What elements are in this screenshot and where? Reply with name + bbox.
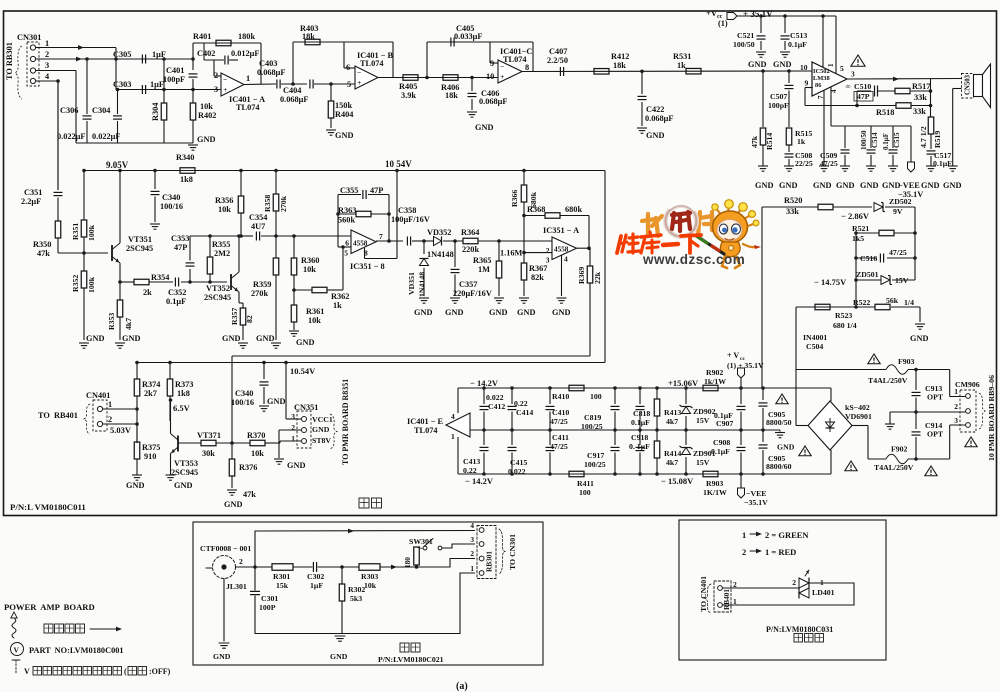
svg-text:5: 5 — [840, 64, 844, 73]
svg-text:C354: C354 — [249, 213, 267, 222]
svg-text:47/25: 47/25 — [550, 417, 568, 426]
svg-text:0.1μF: 0.1μF — [631, 418, 650, 427]
svg-text:R413: R413 — [664, 408, 681, 417]
capacitor C513 — [784, 16, 786, 33]
legend signal path — [44, 624, 53, 633]
svg-text:C918: C918 — [631, 433, 648, 442]
svg-text:2: 2 — [792, 578, 796, 587]
svg-text:9: 9 — [805, 79, 809, 88]
ground C513 — [780, 51, 790, 53]
svg-text:33k: 33k — [786, 207, 799, 216]
op-amp IC401-C — [498, 60, 522, 83]
wire LED loop — [809, 582, 854, 584]
svg-text:10k: 10k — [308, 316, 321, 325]
wire VD352 seg — [420, 240, 433, 242]
wire R303 out — [380, 566, 450, 568]
svg-text:R367: R367 — [529, 264, 547, 273]
svg-text:1: 1 — [451, 432, 455, 441]
svg-text:2: 2 — [45, 50, 49, 59]
wire rail -15 — [458, 473, 831, 475]
svg-text:2: 2 — [470, 549, 474, 558]
wire VD352-R364 — [443, 240, 463, 242]
svg-text:6: 6 — [346, 63, 350, 72]
resistor R302 — [341, 567, 343, 584]
svg-text:0.068μF: 0.068μF — [280, 95, 308, 104]
svg-text:TO CN401: TO CN401 — [699, 576, 708, 612]
svg-text:F902: F902 — [891, 445, 908, 454]
wire C510 net — [857, 90, 871, 92]
svg-text:0.1μF: 0.1μF — [933, 159, 952, 168]
wire VT351 emitter — [119, 263, 121, 300]
wire 9.05V rail — [84, 170, 605, 172]
svg-text:1k: 1k — [677, 61, 686, 70]
svg-text:GND: GND — [222, 334, 240, 343]
svg-text:IC401 − E: IC401 − E — [407, 417, 444, 426]
svg-text:C513: C513 — [790, 31, 807, 40]
wire pin2 stub — [214, 75, 221, 77]
svg-text:kS−402: kS−402 — [845, 403, 870, 412]
svg-text:1.16M: 1.16M — [500, 249, 523, 258]
svg-text:0.012μF: 0.012μF — [231, 49, 259, 58]
resistor R402 — [192, 90, 194, 104]
wire CN401 pin2 — [103, 423, 137, 425]
svg-text:(a): (a) — [456, 681, 468, 692]
svg-text:5: 5 — [344, 249, 348, 258]
svg-text:+: + — [500, 73, 504, 81]
wire output A — [244, 83, 276, 86]
capacitor C405 — [450, 38, 452, 47]
svg-text:0.022: 0.022 — [486, 393, 504, 402]
svg-text:R352: R352 — [71, 275, 80, 292]
svg-text:15k: 15k — [276, 581, 289, 590]
svg-text:GND: GND — [552, 308, 570, 317]
ground VD351 — [419, 297, 429, 299]
wire VT351 collector — [119, 171, 121, 244]
resistor R519 — [928, 117, 934, 134]
svg-text:R521: R521 — [852, 224, 869, 233]
ground JL301 — [219, 642, 229, 644]
wire rail +15 — [458, 387, 831, 389]
capacitor C357 — [454, 241, 456, 267]
svg-text:C521: C521 — [737, 31, 754, 40]
svg-text:VCC1: VCC1 — [312, 415, 333, 424]
ground C515 — [888, 165, 898, 167]
svg-text:4: 4 — [451, 412, 455, 421]
zener ZD502 — [874, 203, 883, 212]
wire mid cm906 — [890, 411, 966, 413]
wire LED top — [722, 587, 799, 589]
brace CN401 — [84, 404, 90, 434]
wire R370 to ST8V — [265, 442, 280, 444]
svg-text:R405: R405 — [399, 82, 417, 91]
svg-text:GND: GND — [836, 181, 854, 190]
resistor R375 — [136, 424, 138, 442]
svg-text:8: 8 — [525, 63, 529, 72]
svg-text:0.033μF: 0.033μF — [454, 32, 482, 41]
capacitor C410 — [549, 388, 551, 404]
capacitor C510 — [874, 86, 876, 97]
op-amp IC351-8 — [351, 230, 376, 254]
svg-text:(: ( — [124, 667, 127, 676]
transistor VT351 — [111, 245, 113, 261]
svg-text:C515: C515 — [893, 132, 901, 148]
svg-text:82: 82 — [245, 315, 254, 323]
svg-text:4558: 4558 — [353, 240, 368, 248]
capacitor C351 — [57, 81, 59, 190]
svg-text:GND: GND — [287, 461, 305, 470]
svg-text:47/25: 47/25 — [820, 159, 838, 168]
capacitor C514 — [867, 149, 876, 151]
svg-text:2.2/50: 2.2/50 — [547, 56, 568, 65]
legend dashed V — [12, 659, 20, 661]
svg-text:R364: R364 — [461, 228, 479, 237]
capacitor C401 — [192, 59, 194, 70]
svg-text:(1): (1) — [718, 19, 728, 28]
svg-text:4k7: 4k7 — [666, 417, 678, 426]
svg-text:2.2μF: 2.2μF — [21, 197, 41, 206]
border frame — [4, 11, 997, 516]
capacitor C913 — [915, 370, 917, 391]
svg-text:1: 1 — [45, 39, 49, 48]
svg-text:5: 5 — [347, 80, 351, 89]
op-amp IC401-A — [221, 73, 244, 96]
svg-text:IC351 − A: IC351 − A — [543, 226, 579, 235]
svg-text:CN351: CN351 — [294, 403, 318, 412]
jack JL301 — [213, 556, 236, 579]
wire vcc rail — [737, 15, 836, 17]
svg-text:ZD502: ZD502 — [889, 197, 912, 206]
wire sw feed — [254, 531, 256, 567]
resistor R531 — [686, 68, 701, 74]
ground R302 — [335, 635, 345, 637]
svg-text:R401: R401 — [193, 32, 211, 41]
svg-text:C412: C412 — [488, 402, 505, 411]
svg-text:15V: 15V — [696, 416, 710, 425]
svg-text:22k: 22k — [593, 271, 602, 284]
svg-text:9.05V: 9.05V — [106, 160, 129, 170]
label shuru — [400, 643, 409, 652]
wire SW301 pin3 — [442, 547, 452, 549]
wire pin1 drop — [115, 48, 117, 90]
brace CN351 — [330, 414, 337, 449]
svg-text:1: 1 — [291, 434, 295, 443]
capacitor C340a — [154, 171, 156, 190]
svg-text:C403: C403 — [259, 59, 277, 68]
wire feedback R401 net — [193, 42, 261, 44]
ground C521 — [756, 51, 766, 53]
resistor R520 — [818, 204, 833, 210]
label zhishideng — [794, 634, 803, 643]
svg-text:5.03V: 5.03V — [110, 425, 132, 435]
svg-text:100μF/16V: 100μF/16V — [391, 215, 430, 224]
wire feedback C405 net — [427, 41, 533, 43]
svg-text:15V: 15V — [696, 458, 710, 467]
resistor R413 — [656, 388, 658, 399]
svg-text:1/4: 1/4 — [904, 298, 914, 307]
node -VEE mid — [738, 488, 745, 498]
svg-text:VT351: VT351 — [128, 235, 152, 244]
wire VT353 collector — [170, 400, 172, 434]
svg-text:R517: R517 — [912, 82, 930, 91]
capacitor C302 — [312, 563, 314, 572]
wire R520 to ZD502 — [833, 206, 872, 208]
svg-text:1μF: 1μF — [310, 581, 323, 590]
svg-text:1 = RED: 1 = RED — [765, 547, 796, 557]
svg-text:PART NO:LVM0180C001: PART NO:LVM0180C001 — [29, 646, 124, 655]
svg-text:SW301: SW301 — [409, 537, 433, 546]
resistor R366 — [523, 171, 525, 186]
warning triangle bridge — [845, 461, 857, 471]
svg-text:56k: 56k — [886, 296, 899, 305]
svg-text:R376: R376 — [239, 463, 257, 472]
svg-text:GND: GND — [312, 425, 330, 434]
capacitor C914 — [915, 412, 917, 429]
resistor R369 — [589, 248, 591, 266]
connector CM906 — [960, 390, 976, 432]
svg-text:100k: 100k — [87, 276, 96, 293]
resistor R521 — [856, 232, 879, 234]
svg-text:47/25: 47/25 — [889, 248, 907, 257]
diode VD351 — [423, 241, 425, 254]
svg-text:C414: C414 — [516, 408, 533, 417]
svg-text:P/N:L VM0180C011: P/N:L VM0180C011 — [10, 502, 86, 512]
wire speaker return — [953, 88, 962, 90]
svg-text:C907: C907 — [716, 419, 733, 428]
svg-text:TL074: TL074 — [414, 426, 438, 435]
resistor R514 — [762, 71, 764, 127]
svg-text:18k: 18k — [445, 91, 458, 100]
resistor R303 — [359, 564, 380, 571]
svg-text:R354: R354 — [151, 273, 169, 282]
wire R364-pin2 — [478, 240, 552, 242]
svg-text:−VEE: −VEE — [898, 181, 920, 190]
svg-text:GND: GND — [126, 481, 144, 490]
svg-text:F903: F903 — [898, 357, 915, 366]
svg-text:VD352: VD352 — [427, 228, 451, 237]
wire pin1 — [36, 47, 116, 49]
svg-text:680k: 680k — [565, 205, 582, 214]
capacitor C413 — [483, 430, 485, 445]
led LD401 — [799, 578, 809, 588]
svg-text:10: 10 — [486, 72, 494, 81]
svg-text:TO RB401: TO RB401 — [38, 411, 78, 420]
svg-text:VD6901: VD6901 — [845, 412, 872, 421]
svg-text:10.54V: 10.54V — [290, 366, 316, 376]
svg-text:(1) + 35.1V: (1) + 35.1V — [727, 361, 764, 370]
svg-text:R351: R351 — [71, 223, 80, 240]
svg-text:100pF: 100pF — [163, 75, 185, 84]
svg-text:R353: R353 — [107, 313, 116, 330]
svg-text:C306: C306 — [60, 106, 78, 115]
svg-text:VT371: VT371 — [197, 431, 221, 440]
node -VEE — [910, 126, 912, 162]
svg-text:C422: C422 — [646, 105, 664, 114]
svg-text:R531: R531 — [673, 52, 691, 61]
wire feedback R403 net — [293, 41, 344, 43]
wire pin3 line IC351A — [524, 252, 552, 254]
wire R301-C302 — [293, 566, 312, 568]
svg-text:2k7: 2k7 — [144, 389, 157, 398]
ground C508 — [784, 165, 794, 167]
svg-text:10k: 10k — [303, 265, 316, 274]
resistor R358 — [275, 171, 277, 195]
svg-text:CN401: CN401 — [86, 391, 110, 400]
svg-text:IC502: IC502 — [813, 68, 830, 75]
connector RB401 — [714, 581, 731, 612]
capacitor C507 — [788, 71, 790, 83]
svg-text:C351: C351 — [24, 188, 42, 197]
wire JL301 gnd — [223, 579, 225, 642]
capacitor C517 — [927, 150, 936, 152]
svg-text:C353: C353 — [171, 234, 189, 243]
svg-text:2M2: 2M2 — [214, 249, 230, 258]
resistor 180 — [414, 547, 420, 565]
svg-text:IC351 − 8: IC351 − 8 — [350, 262, 385, 271]
wire pin4 net — [830, 87, 832, 126]
svg-text:−35.1V: −35.1V — [744, 498, 768, 507]
ground R376 — [227, 489, 237, 491]
wire F902 line — [852, 425, 868, 427]
brace CM906 — [979, 393, 985, 429]
svg-text:GND: GND — [517, 308, 535, 317]
svg-text:GND: GND — [267, 397, 285, 406]
svg-text:POWER AMP BOARD: POWER AMP BOARD — [4, 602, 95, 612]
resistor R361 — [293, 290, 295, 305]
svg-text:P/N:LVM0180C031: P/N:LVM0180C031 — [766, 625, 833, 634]
svg-text:+: + — [357, 79, 361, 87]
resistor VT371 — [201, 440, 216, 446]
svg-text:C516: C516 — [860, 254, 877, 263]
op-amp IC351-A — [552, 237, 577, 260]
svg-text:2SC945: 2SC945 — [126, 244, 153, 253]
svg-text:ZD501: ZD501 — [856, 270, 879, 279]
wire C354 line — [239, 235, 253, 237]
wire pin4 — [36, 80, 58, 82]
svg-text:R359: R359 — [253, 280, 271, 289]
svg-text:R340: R340 — [176, 153, 194, 162]
legend spring — [12, 619, 16, 638]
pentagon Vcc mid — [738, 368, 745, 378]
svg-text:15V: 15V — [895, 276, 909, 285]
warning triangle CM906 — [965, 437, 977, 447]
svg-text:R903: R903 — [706, 479, 723, 488]
wire coupling mid — [281, 83, 307, 85]
transistor VT353 — [177, 436, 179, 452]
svg-text:C407: C407 — [549, 47, 567, 56]
capacitor C352 — [174, 278, 176, 287]
wire R520 net — [762, 206, 818, 208]
resistor R354 — [134, 279, 149, 285]
svg-text:C507: C507 — [770, 92, 787, 101]
svg-text:0.068μF: 0.068μF — [479, 97, 507, 106]
svg-text:3.9k: 3.9k — [401, 91, 416, 100]
connector RB301 — [477, 526, 496, 579]
svg-text:R519: R519 — [933, 131, 942, 148]
speaker SP — [974, 75, 983, 97]
resistor R903 — [703, 471, 718, 477]
capacitor C304 — [117, 90, 119, 115]
svg-text:100/50: 100/50 — [733, 40, 755, 49]
svg-text:3: 3 — [546, 256, 550, 265]
svg-text:GND: GND — [213, 652, 231, 661]
svg-text:100P: 100P — [259, 603, 276, 612]
svg-text:−: − — [500, 63, 504, 71]
warning triangle C905a — [776, 394, 788, 404]
svg-text:TO CN301: TO CN301 — [508, 534, 517, 570]
svg-text:TL074: TL074 — [503, 55, 527, 64]
svg-text:C514: C514 — [871, 132, 879, 148]
wire pin9 feedback — [805, 87, 813, 89]
svg-text:86: 86 — [815, 82, 822, 89]
wire R518 line — [805, 105, 896, 107]
resistor R376 — [231, 443, 233, 459]
svg-text:− 14.2V: − 14.2V — [465, 476, 494, 486]
svg-text:V: V — [14, 646, 20, 655]
wire Vcc col — [740, 378, 742, 404]
warning triangle F903 — [868, 354, 880, 364]
svg-text:GND: GND — [256, 334, 274, 343]
svg-text:R410: R410 — [552, 392, 569, 401]
wire VT352 collector — [238, 236, 240, 272]
svg-text:TO RB301: TO RB301 — [5, 42, 14, 80]
resistor R353 — [117, 300, 123, 317]
svg-text:220μF/16V: 220μF/16V — [453, 289, 492, 298]
svg-text:R365: R365 — [473, 256, 491, 265]
svg-text:C917: C917 — [587, 451, 604, 460]
svg-text:ZD902: ZD902 — [693, 407, 716, 416]
wire C354 right — [261, 235, 351, 237]
wire ladder right — [885, 206, 915, 208]
svg-text:R518: R518 — [876, 108, 894, 117]
svg-text:GND: GND — [330, 652, 348, 661]
op-amp IC401-B — [355, 66, 378, 89]
wire C353/R355 top — [190, 235, 239, 237]
wire to pin5 — [314, 83, 355, 85]
wire 6.5V node — [169, 400, 171, 421]
svg-text:R375: R375 — [142, 443, 160, 452]
svg-text:220k: 220k — [462, 245, 479, 254]
svg-text:22/25: 22/25 — [795, 159, 813, 168]
resistor R365 — [498, 241, 500, 261]
svg-text:R304: R304 — [151, 103, 160, 121]
svg-text:9V: 9V — [893, 207, 903, 216]
capacitor C305 — [141, 55, 143, 64]
svg-text:GND: GND — [414, 308, 432, 317]
zener ZD901 — [685, 430, 687, 445]
led board box — [679, 520, 886, 660]
svg-text:−: − — [223, 76, 227, 84]
svg-text:ST8V: ST8V — [312, 436, 331, 445]
wire pin3 line — [116, 89, 221, 91]
svg-text:R411: R411 — [577, 479, 594, 488]
svg-text:C402: C402 — [197, 49, 215, 58]
svg-text:C357: C357 — [459, 280, 477, 289]
ground C357 — [450, 297, 460, 299]
resistor R356 — [240, 171, 242, 197]
svg-text:1M: 1M — [478, 265, 490, 274]
wire output IC502 — [847, 78, 962, 81]
warning triangle C905b — [799, 446, 811, 456]
capacitor C516 — [856, 257, 877, 259]
capacitor C515 — [889, 149, 898, 151]
ground speaker — [948, 165, 958, 167]
capacitor C303 — [141, 85, 143, 94]
resistor R373 — [169, 363, 171, 380]
resistor R367 — [523, 251, 525, 263]
wire gnd bus input — [76, 142, 193, 144]
wire CN401 pin1 — [103, 408, 137, 410]
svg-text:C410: C410 — [552, 408, 569, 417]
